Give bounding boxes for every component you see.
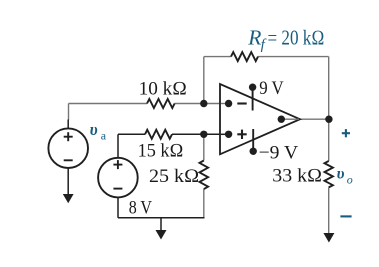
svg-text:R: R bbox=[247, 26, 261, 50]
svg-text:f: f bbox=[261, 37, 267, 53]
svg-text:o: o bbox=[347, 172, 353, 186]
svg-text:= 20 kΩ: = 20 kΩ bbox=[268, 26, 325, 50]
svg-text:33 kΩ: 33 kΩ bbox=[272, 166, 322, 187]
svg-text:υ: υ bbox=[337, 166, 345, 183]
svg-text:15 kΩ: 15 kΩ bbox=[138, 141, 184, 162]
svg-text:υ: υ bbox=[90, 120, 98, 139]
svg-text:10 kΩ: 10 kΩ bbox=[139, 78, 187, 99]
svg-text:9 V: 9 V bbox=[259, 78, 284, 99]
svg-text:a: a bbox=[101, 129, 107, 143]
svg-text:8 V: 8 V bbox=[129, 198, 153, 219]
svg-text:25 kΩ: 25 kΩ bbox=[149, 166, 199, 187]
svg-text:−9 V: −9 V bbox=[259, 143, 299, 164]
